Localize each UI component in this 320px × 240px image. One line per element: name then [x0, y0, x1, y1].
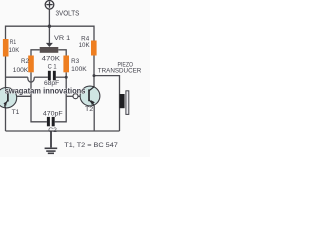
T2 base terminal circle: [73, 94, 78, 99]
resistor R4 body: [91, 41, 97, 56]
wire T2 emitter down: [93, 106, 95, 132]
wire piezo branch horizontal: [94, 76, 120, 131]
svg-text:T1, T2 = BC 547: T1, T2 = BC 547: [64, 142, 118, 149]
transistor T1: [0, 88, 17, 109]
svg-text:470K: 470K: [42, 56, 61, 63]
svg-text:T2: T2: [85, 106, 94, 113]
svg-text:10K: 10K: [9, 47, 20, 54]
wire node A horizontal to C1: [6, 76, 28, 78]
piezo transducer body plate: [120, 94, 125, 108]
ground symbol: [45, 131, 58, 153]
wire R4 to T2 collector: [93, 56, 95, 88]
wire T2 base terminal to circle: [78, 95, 81, 97]
svg-text:TRANSDUCER: TRANSDUCER: [98, 68, 142, 75]
svg-text:470pF: 470pF: [43, 110, 63, 117]
svg-text:C 1: C 1: [48, 64, 58, 71]
svg-text:swagatam innovations: swagatam innovations: [5, 87, 87, 96]
battery B1 stem: [48, 9, 50, 26]
piezo transducer right plate: [126, 91, 129, 115]
wire hop to C1 left plate: [34, 76, 48, 78]
svg-text:R2: R2: [21, 58, 30, 65]
wire VR1 wiper from supply: [48, 26, 50, 43]
wire T1 base lead: [9, 95, 31, 97]
svg-text:100K: 100K: [13, 67, 29, 74]
capacitor C1 left plate: [48, 71, 51, 81]
wire C1 right plate to column C: [56, 76, 66, 78]
wire top rail: [6, 26, 95, 40]
potentiometer VR1 wiper arrowhead: [46, 43, 53, 47]
wire hop under column B: [28, 77, 34, 82]
potentiometer VR1 body: [40, 47, 59, 53]
svg-text:C2: C2: [48, 127, 57, 134]
svg-text:T1: T1: [12, 109, 20, 116]
capacitor C2 left plate: [47, 117, 50, 126]
resistor R3 body: [63, 56, 69, 73]
junction dot C1 right at column C: [65, 76, 68, 79]
wire bottom ground rail: [6, 130, 120, 132]
svg-text:R1: R1: [10, 39, 17, 46]
capacitor C1 right plate: [53, 71, 56, 81]
junction dot supply/top rail: [48, 25, 51, 28]
wire T1 emitter down: [5, 107, 7, 131]
wire column B R2 to T1 base junction to C2 corner: [31, 72, 47, 122]
wire VR1 right terminal to R3: [58, 50, 66, 56]
junction dot piezo branch at R4 column: [93, 74, 96, 77]
svg-text:10K: 10K: [79, 42, 91, 49]
transistor T2: [80, 86, 100, 106]
resistor R2 body: [28, 56, 34, 73]
svg-text:VR 1: VR 1: [54, 35, 71, 42]
svg-text:100K: 100K: [71, 66, 87, 73]
svg-text:R3: R3: [71, 58, 80, 65]
wire T2 base lead: [66, 95, 73, 97]
wire R1 to T1 collector: [5, 57, 7, 90]
wire VR1 left terminal to R2: [31, 50, 40, 56]
capacitor C2 right plate: [52, 117, 55, 126]
battery B1 3V supply symbol: [45, 1, 54, 10]
resistor R1 body: [3, 39, 9, 57]
wire column C R3 down to C2 right corner: [55, 72, 66, 122]
svg-text:3VOLTS: 3VOLTS: [56, 10, 80, 17]
